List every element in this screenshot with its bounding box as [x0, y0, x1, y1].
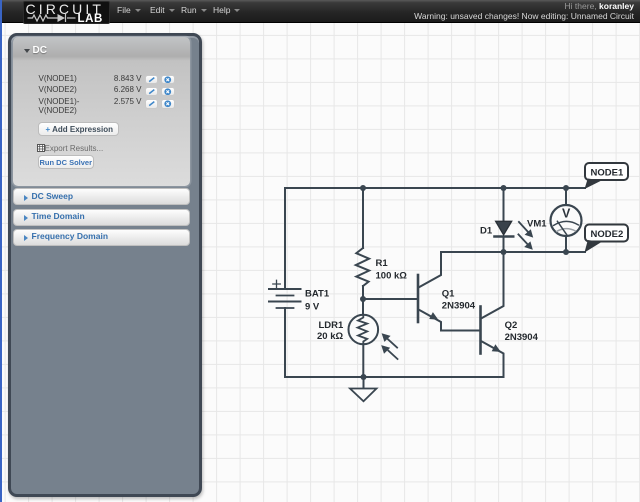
svg-text:BAT1: BAT1 — [305, 289, 330, 300]
svg-text:Q2: Q2 — [505, 320, 518, 331]
svg-text:D1: D1 — [480, 226, 493, 237]
svg-text:LDR1: LDR1 — [319, 320, 345, 331]
svg-text:V: V — [562, 207, 571, 221]
svg-text:20 kΩ: 20 kΩ — [317, 331, 343, 342]
svg-text:NODE1: NODE1 — [591, 168, 624, 179]
svg-text:9 V: 9 V — [305, 302, 320, 313]
svg-text:R1: R1 — [376, 258, 389, 269]
svg-text:2N3904: 2N3904 — [505, 332, 539, 343]
svg-text:NODE2: NODE2 — [591, 229, 624, 240]
svg-text:Q1: Q1 — [442, 289, 455, 300]
svg-text:100 kΩ: 100 kΩ — [376, 271, 408, 282]
svg-text:VM1: VM1 — [527, 219, 547, 230]
svg-text:2N3904: 2N3904 — [442, 301, 476, 312]
